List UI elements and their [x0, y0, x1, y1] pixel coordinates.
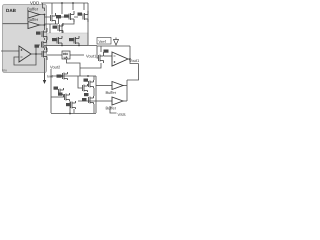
wire buffer outputs bus — [40, 15, 45, 31]
transistor Mb7 label — [82, 98, 87, 101]
junction dot output node — [129, 58, 131, 60]
wire VDD drop into DAB — [43, 3, 45, 11]
transistor M7 — [58, 23, 63, 33]
transistor M3 — [83, 11, 88, 22]
transistor M4 label — [36, 32, 41, 35]
wire buffer1 input — [3, 23, 29, 25]
wire cluster mid row — [78, 76, 82, 88]
current source box — [62, 51, 70, 59]
transistor Mb5 — [71, 101, 76, 109]
wire current box right — [70, 54, 84, 56]
output arrow — [44, 73, 46, 81]
transistor Mb5 label — [66, 103, 71, 106]
wire cluster right inner — [93, 76, 95, 113]
wire opamp2 minus input — [104, 55, 112, 57]
transistor M10 — [99, 52, 104, 63]
wire band bottom bus — [44, 45, 97, 47]
wire current box tail — [67, 59, 81, 76]
transistor M6 — [42, 48, 47, 60]
wire rail drop 1 — [51, 3, 53, 14]
Vref port box — [97, 38, 111, 45]
svg-text:Buffer: Buffer — [106, 90, 117, 95]
wire rail drop 2 — [61, 3, 63, 14]
Vref arrow symbol — [114, 38, 119, 46]
wire rail right corner down — [87, 3, 89, 45]
wire buffer2 output — [40, 24, 45, 26]
junction dot feedback — [35, 53, 37, 55]
wire vout2 drop — [50, 69, 52, 76]
svg-text:Buffer: Buffer — [106, 106, 117, 111]
wire cluster mid vertical — [69, 101, 71, 113]
transistor Mb0 label — [57, 75, 62, 78]
transistor M8 on band — [57, 36, 62, 46]
transistor M3 label — [78, 13, 83, 16]
wire vout1 to gate — [97, 46, 98, 58]
transistor M5 label — [35, 45, 40, 48]
wire rail drop 3 — [72, 3, 74, 10]
wire opamp feedback — [14, 45, 40, 65]
transistor Mb6 label — [84, 93, 89, 96]
transistor Mb4 label — [58, 93, 63, 96]
buffer B1 — [28, 11, 40, 18]
wire gate bus row1 — [45, 17, 70, 24]
wire bottom cluster right edge — [95, 76, 97, 113]
transistor M9 on band — [74, 36, 79, 46]
wire vout down to buffers — [127, 64, 139, 81]
wire mirror source down — [80, 63, 101, 68]
wire VDD rail — [41, 2, 88, 4]
wire opamp output — [31, 53, 42, 55]
junction dot band 2 — [78, 45, 80, 47]
svg-text:DAB: DAB — [6, 8, 17, 13]
wire pass transistor chain — [44, 38, 46, 73]
transistor Mb6 — [89, 96, 94, 104]
wire current box left — [47, 54, 62, 56]
wire cluster lower row — [78, 100, 96, 102]
wire row2 — [45, 24, 59, 33]
wire buffer4 input — [96, 100, 112, 102]
op-amp A1 — [19, 46, 31, 62]
wire bottom cluster top rail — [51, 75, 96, 77]
transistor Mb1 — [89, 80, 94, 88]
junction dot cluster 2 — [87, 75, 89, 77]
transistor Mb4 — [65, 93, 70, 101]
junction dot cluster 3 — [69, 113, 71, 115]
transistor M9 label — [69, 38, 74, 41]
transistor Mb2 — [83, 84, 88, 92]
op-amp A1 plus — [21, 49, 23, 51]
transistor M1 label — [56, 15, 61, 18]
op-amp A2 — [112, 52, 128, 66]
wire opamp input — [1, 50, 19, 52]
junction dot rail 2 — [72, 2, 74, 4]
wire vref feedback top — [97, 45, 130, 47]
wire bottom cluster left edge — [50, 76, 52, 113]
wire cluster lower row2 — [73, 109, 75, 113]
transistor M10 label — [104, 50, 109, 53]
op-amp A2 minus — [114, 55, 116, 57]
svg-text:VDD: VDD — [30, 1, 39, 6]
transistor Mb1 label — [84, 79, 89, 82]
svg-text:Buffer: Buffer — [27, 17, 39, 22]
wire opamp2 output — [128, 59, 139, 64]
svg-text:Buffer: Buffer — [27, 7, 39, 12]
wire mirror drain — [62, 17, 78, 33]
transistor M2 label — [64, 15, 69, 18]
bias block background — [47, 33, 88, 46]
transistor M7 label — [53, 26, 58, 29]
wire VSS stub — [110, 106, 117, 113]
transistor M4 — [42, 28, 47, 40]
DAB block background — [3, 5, 47, 73]
transistor Mb3 — [59, 88, 64, 97]
svg-text:Vout1: Vout1 — [86, 54, 97, 59]
buffer B2 — [28, 22, 40, 29]
buffer B3 — [112, 82, 123, 90]
junction dot buffer bus 1 — [44, 14, 46, 16]
op-amp A1 minus — [21, 56, 23, 58]
wire buffer3 output — [123, 85, 127, 87]
svg-text:Iout: Iout — [47, 75, 53, 79]
wire feedback down to output — [129, 46, 131, 59]
wire buffer3 input — [96, 85, 112, 87]
op-amp A2 plus — [114, 61, 116, 63]
junction dot rail 1 — [61, 2, 63, 4]
wire rail drop 4 — [83, 3, 85, 10]
wire cluster row h97 — [51, 96, 64, 98]
svg-text:VSS: VSS — [118, 112, 126, 117]
svg-text:Vin: Vin — [2, 69, 7, 73]
transistor Mb0 — [63, 72, 68, 80]
svg-text:Vref: Vref — [99, 39, 107, 44]
transistor M8 label — [52, 38, 57, 41]
junction dot buffer bus 2 — [44, 24, 46, 26]
transistor M1 — [51, 13, 56, 24]
wire buffer4 output — [123, 100, 127, 102]
wire bottom cluster bottom rail — [51, 113, 96, 115]
transistor M5 — [42, 40, 47, 50]
wire mirror drain up — [100, 46, 102, 52]
junction dot band 1 — [61, 45, 63, 47]
transistor Mb3 label — [54, 87, 59, 90]
buffer B4 — [112, 97, 123, 105]
wire buffer output bus right — [126, 80, 128, 101]
transistor M2 — [69, 11, 74, 22]
svg-text:Vout2: Vout2 — [50, 65, 61, 70]
junction dot cluster 1 — [61, 75, 63, 77]
